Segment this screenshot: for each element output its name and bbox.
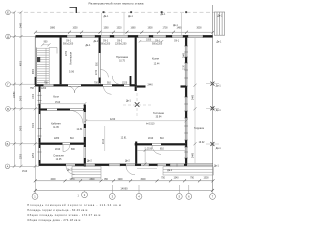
svg-text:1050: 1050 [72, 28, 78, 30]
svg-text:12.81: 12.81 [121, 137, 127, 139]
svg-text:1500: 1500 [203, 178, 209, 180]
svg-text:2190: 2190 [103, 138, 105, 144]
svg-text:4860: 4860 [33, 68, 35, 74]
svg-text:Е: Е [7, 10, 9, 14]
svg-text:Дв-1: Дв-1 [126, 101, 132, 103]
svg-text:Терраса: Терраса [194, 126, 205, 130]
svg-text:2280: 2280 [54, 138, 60, 140]
svg-text:2250: 2250 [21, 153, 23, 159]
svg-text:2190: 2190 [148, 138, 154, 140]
svg-text:Дв-1: Дв-1 [214, 166, 220, 168]
svg-text:Дв-1: Дв-1 [161, 14, 167, 16]
svg-text:5.06: 5.06 [69, 69, 75, 73]
svg-text:4800: 4800 [21, 60, 23, 66]
svg-text:1520: 1520 [122, 82, 128, 84]
svg-text:Дв-1: Дв-1 [167, 170, 173, 172]
svg-text:1520: 1520 [116, 28, 122, 30]
svg-text:Кухня: Кухня [152, 57, 160, 61]
svg-text:ОК-2: ОК-2 [117, 41, 123, 43]
svg-text:1200х1200: 1200х1200 [115, 44, 127, 46]
svg-text:11.95: 11.95 [53, 127, 59, 129]
svg-text:14060: 14060 [120, 186, 128, 190]
svg-text:10.75: 10.75 [119, 61, 125, 63]
svg-text:900х1200: 900х1200 [100, 44, 111, 46]
svg-text:2440: 2440 [193, 152, 195, 158]
svg-text:2440: 2440 [183, 52, 185, 58]
svg-text:3000: 3000 [140, 179, 146, 181]
svg-text:h=2.510: h=2.510 [146, 123, 155, 125]
svg-text:Дв-2: Дв-2 [94, 41, 100, 43]
svg-text:Холл: Холл [53, 94, 60, 98]
svg-text:3470: 3470 [33, 122, 35, 128]
svg-text:4240: 4240 [110, 119, 116, 121]
svg-text:Дв-4: Дв-4 [86, 45, 92, 47]
svg-text:ОК-1: ОК-1 [103, 41, 109, 43]
svg-text:1510: 1510 [55, 102, 61, 104]
svg-text:Дв-2: Дв-2 [87, 161, 93, 163]
svg-text:1050: 1050 [146, 39, 152, 41]
svg-text:Кабинет: Кабинет [51, 122, 62, 126]
svg-text:900х1200: 900х1200 [63, 44, 74, 46]
svg-text:12.44: 12.44 [154, 64, 160, 66]
svg-text:12.84: 12.84 [77, 129, 83, 131]
svg-text:Д: Д [7, 35, 9, 39]
svg-text:1900: 1900 [117, 179, 123, 181]
svg-text:1510: 1510 [22, 171, 28, 173]
svg-text:1900: 1900 [147, 28, 153, 30]
svg-text:Площадь помещений первого этаж: Площадь помещений первого этажа - 114.34… [27, 203, 121, 207]
svg-text:35.94: 35.94 [156, 117, 162, 119]
svg-text:Общая площадь первого этажа -: Общая площадь первого этажа - 174.07 кв.… [27, 213, 100, 217]
svg-text:3880: 3880 [50, 28, 56, 30]
svg-text:Дв-1: Дв-1 [218, 16, 224, 18]
svg-text:Прихожая: Прихожая [116, 55, 129, 59]
svg-text:12.05: 12.05 [56, 159, 62, 161]
svg-text:Спальня: Спальня [53, 154, 64, 158]
svg-text:2250: 2250 [33, 152, 35, 158]
svg-text:Размеровочный план первого эта: Размеровочный план первого этажа [89, 2, 144, 6]
svg-text:3470: 3470 [21, 125, 23, 131]
svg-text:Дв-1: Дв-1 [217, 41, 223, 43]
svg-text:2190: 2190 [147, 148, 153, 150]
svg-text:ОК-1: ОК-1 [174, 41, 180, 43]
svg-text:В: В [7, 107, 9, 111]
svg-text:Дв-1: Дв-1 [216, 86, 222, 88]
svg-text:Площадь террас и крыльца - 60.: Площадь террас и крыльца - 60.43 кв.м [27, 208, 87, 212]
svg-text:1700: 1700 [162, 28, 168, 30]
svg-text:1540: 1540 [173, 178, 179, 180]
svg-text:Котельная: Котельная [68, 51, 72, 64]
svg-text:2470: 2470 [21, 95, 23, 101]
svg-text:1300: 1300 [33, 93, 35, 99]
svg-text:1680: 1680 [130, 28, 136, 30]
svg-text:2440: 2440 [148, 85, 154, 87]
svg-text:Гостиная: Гостиная [153, 111, 164, 115]
svg-text:Дв-1: Дв-1 [216, 148, 222, 150]
svg-text:Дв-1: Дв-1 [216, 110, 222, 112]
svg-text:Дв-2: Дв-2 [125, 160, 131, 162]
svg-text:1260: 1260 [41, 88, 47, 90]
svg-text:2730: 2730 [96, 69, 98, 75]
svg-text:Дв-1: Дв-1 [104, 16, 110, 18]
svg-text:Общая площадь дома - 274.18 кв: Общая площадь дома - 274.18 кв.м [27, 218, 80, 222]
svg-text:А: А [7, 164, 9, 168]
svg-text:2190: 2190 [55, 149, 61, 151]
svg-text:1560: 1560 [103, 28, 109, 30]
svg-text:4000: 4000 [50, 179, 56, 181]
svg-text:ОК-1: ОК-1 [155, 41, 161, 43]
svg-text:ОК-1: ОК-1 [66, 41, 72, 43]
svg-text:2800: 2800 [89, 179, 95, 181]
svg-text:1130: 1130 [183, 64, 185, 70]
svg-text:Дв-2: Дв-2 [67, 169, 73, 171]
svg-text:Дв-1: Дв-1 [173, 25, 179, 27]
svg-text:13050: 13050 [14, 91, 16, 98]
svg-text:2780: 2780 [66, 50, 68, 56]
svg-text:3000: 3000 [196, 28, 202, 30]
svg-text:900х1200: 900х1200 [152, 44, 163, 46]
svg-text:Дв-1: Дв-1 [128, 16, 134, 18]
svg-text:2440: 2440 [21, 22, 23, 28]
svg-text:Б: Б [7, 142, 9, 146]
svg-text:19.02: 19.02 [199, 142, 205, 144]
svg-text:1870: 1870 [69, 179, 75, 181]
svg-text:2440: 2440 [193, 94, 195, 100]
